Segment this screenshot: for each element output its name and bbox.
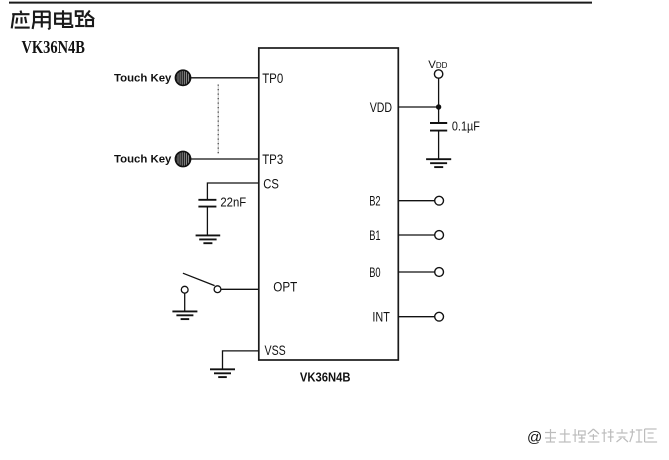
wire TP3 — [191, 158, 259, 160]
wire B1 — [398, 234, 434, 236]
terminal B2 — [435, 196, 444, 205]
svg-text:INT: INT — [372, 310, 389, 325]
capacitor C2 0.1uF — [430, 123, 447, 131]
switch S1 (OPT option select) — [181, 273, 221, 293]
svg-text:TP0: TP0 — [262, 71, 283, 86]
wire C2 to ground — [438, 131, 440, 160]
watermark @稀土掘金技术社区 — [527, 429, 657, 446]
title 应用电路 (drawn strokes) — [12, 10, 95, 29]
svg-text:VSS: VSS — [265, 343, 286, 358]
svg-text:B0: B0 — [369, 265, 380, 280]
ground (VDD capacitor) — [426, 159, 451, 167]
wire C1 to ground — [206, 207, 208, 236]
node VDD supply label — [428, 59, 447, 71]
terminal INT — [435, 312, 444, 321]
wire OPT — [221, 288, 259, 290]
svg-text:TP3: TP3 — [262, 152, 283, 167]
terminal B0 — [435, 268, 444, 277]
terminal B1 — [435, 231, 444, 240]
junction VDD node — [436, 104, 441, 109]
wire B2 — [398, 200, 434, 202]
dashed continuation line between TP0 and TP3 — [217, 85, 219, 154]
wire TP0 — [191, 77, 259, 79]
svg-text:CS: CS — [263, 177, 279, 192]
wire junction to C2 — [438, 107, 440, 122]
wire VDD terminal to junction — [438, 78, 440, 107]
wire VDD pin — [398, 106, 438, 108]
svg-text:22nF: 22nF — [220, 195, 246, 210]
capacitor C1 22nF — [198, 200, 216, 207]
ground (VSS) — [210, 369, 235, 377]
svg-text:VDD: VDD — [370, 100, 393, 115]
touch pad electrode 1 — [175, 70, 190, 85]
wire VSS — [223, 351, 259, 369]
svg-text:Touch Key: Touch Key — [114, 72, 172, 84]
heading rule — [9, 2, 592, 4]
IC U1 body — [259, 48, 399, 360]
svg-text:VK36N4B: VK36N4B — [22, 37, 85, 57]
svg-text:B2: B2 — [369, 194, 380, 209]
svg-text:B1: B1 — [369, 228, 380, 243]
wire switch to ground — [184, 293, 186, 311]
svg-text:DD: DD — [436, 61, 448, 70]
wire CS — [207, 183, 258, 199]
svg-text:VK36N4B: VK36N4B — [300, 371, 351, 385]
wire B0 — [398, 271, 434, 273]
touch pad electrode 2 — [175, 151, 190, 166]
VDD supply terminal circle — [434, 70, 442, 78]
svg-text:Touch Key: Touch Key — [114, 154, 172, 166]
svg-text:0.1µF: 0.1µF — [452, 118, 480, 133]
svg-text:OPT: OPT — [273, 279, 297, 294]
svg-text:@: @ — [527, 429, 542, 446]
wire INT — [398, 316, 434, 318]
ground (switch) — [172, 311, 197, 319]
ground (CS capacitor) — [196, 235, 221, 243]
